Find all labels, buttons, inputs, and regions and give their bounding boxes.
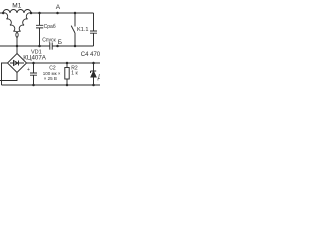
resistor R2 bbox=[66, 63, 68, 85]
junction M1 left terminal bbox=[2, 12, 4, 15]
svg-text:1 к: 1 к bbox=[71, 70, 78, 76]
junction Crab bottom bbox=[38, 45, 41, 48]
motor M1 winding top side bbox=[3, 10, 31, 14]
junction C2 minus rail bbox=[32, 84, 35, 87]
junction K1.1 bottom bbox=[74, 45, 77, 48]
svg-text:A: A bbox=[56, 4, 61, 11]
junction VD2 bottom bbox=[92, 84, 95, 87]
svg-text:C4 470: C4 470 bbox=[81, 52, 100, 58]
capacitor Cpusk plates bbox=[50, 43, 52, 50]
junction bridge AC input bbox=[16, 45, 19, 48]
node B bbox=[56, 45, 59, 48]
diode inside VD1 bbox=[10, 61, 24, 66]
zener diode VD2 bbox=[91, 63, 97, 85]
wire AC rail y=46 bbox=[0, 45, 94, 47]
junction C2 plus rail bbox=[32, 62, 35, 65]
junction VD2 top bbox=[92, 62, 95, 65]
svg-text:M1: M1 bbox=[12, 3, 21, 10]
wire bridge top stub bbox=[16, 46, 18, 54]
capacitor C4 branch right rail bbox=[90, 13, 97, 46]
wire top rail y=13 bbox=[0, 12, 94, 14]
svg-text:Д: Д bbox=[98, 75, 100, 81]
junction M1 right terminal bbox=[30, 12, 33, 15]
bridge rectifier VD1 diamond bbox=[8, 54, 27, 73]
wire mid rail y=63 bbox=[27, 62, 101, 64]
node A bbox=[56, 12, 59, 15]
svg-text:× 25 В: × 25 В bbox=[44, 76, 57, 81]
svg-text:Cраб: Cраб bbox=[44, 24, 56, 30]
junction Crab top bbox=[38, 12, 41, 15]
motor M1 winding right side bbox=[16, 13, 31, 38]
capacitor Crab plates bbox=[36, 25, 43, 28]
capacitor Crab chain vertical wire bbox=[39, 13, 41, 46]
relay contact K1.1 bbox=[71, 13, 75, 46]
junction R2 bottom bbox=[66, 84, 69, 87]
junction R2 top bbox=[66, 62, 69, 65]
wire bridge AC2 lead bbox=[0, 73, 17, 81]
svg-text:Б: Б bbox=[58, 39, 62, 46]
wire bridge minus riser bbox=[2, 63, 8, 85]
wire bottom rail y=85 bbox=[2, 84, 101, 86]
svg-text:КЦ407А: КЦ407А bbox=[23, 54, 47, 61]
motor M1 winding left side bbox=[3, 13, 18, 38]
capacitor C2 branch bbox=[30, 63, 37, 85]
junction K1.1 top bbox=[74, 12, 77, 15]
svg-text:+: + bbox=[27, 67, 30, 73]
svg-text:Cпуск: Cпуск bbox=[42, 38, 56, 44]
wire M1 bottom stub bbox=[16, 38, 18, 47]
svg-text:K1.1: K1.1 bbox=[77, 27, 89, 33]
